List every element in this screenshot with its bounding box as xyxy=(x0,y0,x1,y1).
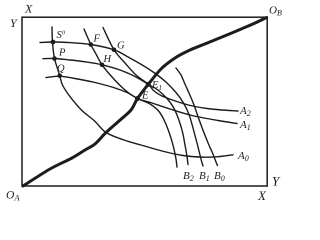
box frame xyxy=(22,17,267,186)
point S0 xyxy=(51,40,56,45)
contract curve OA to OB xyxy=(23,18,267,187)
indifference curve A2 through G tangent at E1 xyxy=(103,28,238,112)
indifference curve B1 through P H E1 xyxy=(43,58,188,164)
svg-text:B1: B1 xyxy=(199,170,210,183)
indifference curve A1 through F H tangent at E xyxy=(84,29,237,124)
svg-text:Y: Y xyxy=(272,174,281,189)
svg-text:OB: OB xyxy=(269,5,282,18)
point F xyxy=(89,42,94,47)
svg-text:G: G xyxy=(117,41,125,52)
svg-text:OA: OA xyxy=(6,190,20,203)
svg-text:Q: Q xyxy=(57,64,65,75)
svg-text:X: X xyxy=(24,2,33,16)
unlabeled indifference curve branch near contract curve xyxy=(176,68,218,166)
svg-text:A2: A2 xyxy=(239,105,251,118)
svg-text:E1: E1 xyxy=(151,80,162,92)
svg-text:A1: A1 xyxy=(239,119,251,132)
svg-text:S0: S0 xyxy=(57,29,66,41)
point E1 xyxy=(146,82,151,87)
point H xyxy=(100,63,105,68)
svg-text:H: H xyxy=(103,54,113,65)
indifference curve B0 through S0 F G xyxy=(40,42,203,166)
point G xyxy=(112,48,117,53)
svg-text:Y: Y xyxy=(10,16,18,30)
svg-text:E: E xyxy=(141,91,149,102)
indifference curve A0 through S0 P Q xyxy=(52,27,233,157)
point P xyxy=(52,56,57,61)
svg-text:B2: B2 xyxy=(183,170,194,183)
svg-text:B0: B0 xyxy=(214,170,225,183)
indifference curve B2 through Q E xyxy=(46,76,177,167)
svg-text:P: P xyxy=(58,48,66,59)
svg-text:F: F xyxy=(93,34,101,45)
point E xyxy=(135,96,140,101)
svg-text:A0: A0 xyxy=(237,150,249,163)
svg-text:X: X xyxy=(257,188,267,203)
point Q xyxy=(57,73,62,78)
